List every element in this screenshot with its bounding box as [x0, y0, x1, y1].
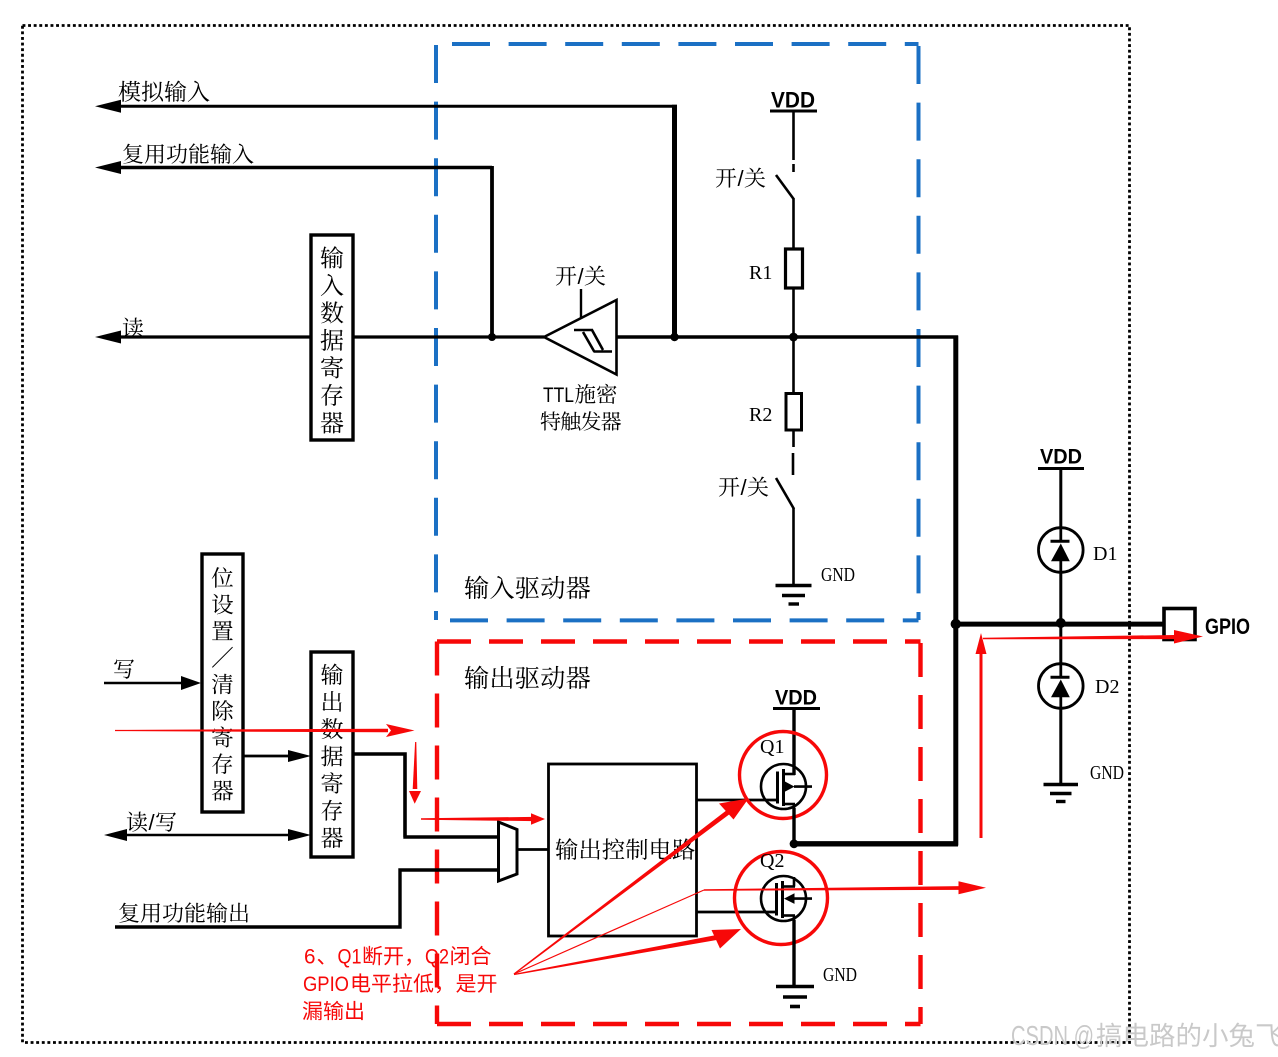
svg-text:R2: R2 — [749, 404, 772, 426]
switch 开/关 (pull-up enable) — [776, 164, 794, 249]
wire: VDD to Q1 drain — [792, 709, 795, 775]
svg-text:D1: D1 — [1093, 543, 1117, 565]
wire: R1 to mid junction — [792, 288, 795, 337]
red arrow: annotation to Q1 gate (diagonal) — [514, 799, 749, 975]
red arrow: down from register output (vertical) — [409, 742, 421, 804]
label: 读/写 (read/write) — [127, 810, 176, 835]
label: 输出控制电路 — [556, 838, 695, 860]
wire: VDD to pull-up switch — [792, 112, 795, 160]
svg-text:D2: D2 — [1095, 676, 1119, 698]
resistor R1 (pull-up) — [786, 249, 803, 288]
svg-text:VDD: VDD — [771, 88, 815, 113]
transistor Q2 (NMOS, black symbol) — [761, 876, 812, 921]
diode D2 (protection to GND) — [1039, 664, 1084, 709]
svg-text:Q2: Q2 — [760, 850, 784, 872]
label: Q2 — [760, 850, 784, 872]
svg-text:Q2: Q2 — [425, 946, 449, 969]
red arrow: to GPIO pad (horizontal) — [983, 630, 1203, 644]
transistor Q1 (PMOS, black symbol) — [761, 764, 812, 809]
label: GND (output stage) — [823, 964, 857, 986]
arrow: 写 (write) into bit set register — [104, 676, 201, 690]
svg-text:Q1: Q1 — [338, 946, 362, 969]
power symbol VDD (pull-up supply) — [770, 88, 817, 113]
label: 输出数据寄存器 (vertical) — [321, 663, 343, 848]
label: 输出驱动器 (output driver) — [465, 666, 591, 690]
wire: D1 to GPIO line — [1059, 572, 1062, 623]
label: R2 — [749, 404, 772, 426]
label: 模拟输入 (analog input) — [119, 80, 210, 101]
schmitt trigger U1 (TTL) — [544, 289, 617, 375]
label: 输入驱动器 (input driver) — [465, 576, 591, 600]
resistor R2 (pull-down) — [786, 337, 802, 430]
label: D1 — [1093, 543, 1117, 565]
wire: alternate function input line with left arrow — [95, 161, 492, 337]
label: 位设置/清除寄存器 (vertical) — [212, 567, 233, 801]
wire: output data register to mux upper input — [353, 752, 498, 837]
red annotation text: 6、Q1断开，Q2闭合 GPIO电平拉低，是开漏输出 — [303, 946, 497, 1021]
label: Q1 — [760, 736, 784, 758]
highlight circle around Q2 (red) — [735, 852, 828, 945]
svg-text:VDD: VDD — [1040, 445, 1082, 469]
svg-text:GND: GND — [821, 564, 855, 586]
svg-text:/: / — [741, 475, 748, 500]
output driver section box (red dashed) — [437, 642, 921, 1025]
wire: gate drive to Q1 — [696, 799, 777, 802]
svg-text:R1: R1 — [749, 262, 772, 284]
wire: 复用功能输出 (alternate function output) to mux lower input — [115, 870, 498, 929]
label: TTL施密特触发器 (TTL schmitt trigger) — [541, 384, 621, 431]
label: 复用功能输入 (alternate function input) — [123, 143, 253, 163]
label: 开/关 (pull-up) — [716, 166, 765, 191]
svg-text:GPIO: GPIO — [1205, 614, 1250, 639]
watermark: CSDN @搞电路的小兔飞 — [1011, 1020, 1278, 1051]
label: 复用功能输出 (alternate function output) — [119, 902, 248, 922]
wire: mux output to output control box — [518, 848, 549, 851]
svg-text:GND: GND — [823, 964, 857, 986]
mux selector (trapezoid) — [499, 822, 518, 881]
wire: analog input line with left arrow — [95, 100, 677, 337]
svg-text:CSDN @: CSDN @ — [1011, 1020, 1094, 1051]
red connector: annotation to output line (thin) — [514, 890, 704, 974]
switch 开/关 (pull-down enable) — [776, 430, 794, 584]
wire: D2 to ground — [1059, 708, 1062, 784]
svg-text:VDD: VDD — [775, 686, 817, 710]
arrow: 读/写 (read/write) double-headed — [104, 829, 311, 841]
arrow: bit set register to output data register — [243, 750, 311, 762]
red arrow: up along GPIO column (vertical) — [976, 633, 987, 838]
wire: read line with left arrow — [95, 331, 544, 344]
wire: GPIO line to D2 — [1059, 623, 1062, 665]
wire: Q1 source to output node — [792, 808, 795, 845]
label: 开/关 (schmitt enable) — [556, 264, 605, 289]
wire: gate drive to Q2 — [696, 911, 776, 914]
highlight circle around Q1 (red) — [740, 732, 827, 819]
register box: 位设置/清除寄存器 (bit set/clear register) — [202, 554, 243, 812]
label: 写 (write) — [114, 659, 134, 678]
label: 读 (read) — [123, 318, 143, 338]
red arrow: annotation to Q2 gate (diagonal) — [514, 929, 741, 975]
wire: Q2 source to ground — [792, 920, 795, 986]
svg-text:GND: GND — [1090, 762, 1124, 784]
label: 输入数据寄存器 (vertical) — [321, 246, 344, 433]
node: junction of analog input column and read line — [670, 333, 678, 341]
wire: GPIO line to pad — [954, 622, 1164, 627]
register box: 输出数据寄存器 (output data register) — [311, 652, 353, 857]
red arrow: into output data register path (horizontal) — [115, 724, 415, 737]
node: GPIO branch on column — [951, 619, 961, 629]
node: pull resistor junction on read line — [789, 333, 798, 342]
GPIO pad (square) — [1164, 609, 1195, 640]
power symbol VDD (protection) — [1038, 445, 1084, 469]
input driver section box (blue dashed) — [436, 44, 919, 620]
svg-text:TTL: TTL — [543, 384, 574, 407]
block: 输出控制电路 (output control circuit) — [549, 764, 697, 936]
svg-text:/: / — [578, 264, 585, 289]
ground (protection) — [1044, 785, 1079, 802]
register box: 输入数据寄存器 (input data register) — [311, 235, 353, 440]
wire: VDD to D1 — [1059, 469, 1062, 529]
label: D2 — [1095, 676, 1119, 698]
svg-text:/: / — [738, 166, 745, 191]
node: junction of alternate input and read line — [488, 333, 496, 341]
red arrow: open-drain output path (long horizontal) — [704, 881, 986, 894]
label: R1 — [749, 262, 772, 284]
wire: schmitt output line to GPIO column — [616, 336, 958, 846]
label: GND (protection) — [1090, 762, 1124, 784]
svg-text:GPIO: GPIO — [303, 973, 349, 996]
label: GPIO — [1205, 614, 1250, 639]
diode D1 (protection to VDD) — [1039, 528, 1084, 573]
svg-text:/: / — [149, 810, 156, 835]
power symbol VDD (output stage) — [773, 686, 820, 710]
svg-text:6: 6 — [304, 946, 316, 969]
node: output junction (Q1/Q2 drain node) — [790, 839, 799, 848]
wire: output node to GPIO column — [794, 841, 958, 846]
node: diode junction on GPIO line — [1056, 618, 1066, 628]
svg-text:Q1: Q1 — [760, 736, 784, 758]
red arrow: into output control circuit (horizontal) — [421, 813, 545, 824]
label: GND (pull-down) — [821, 564, 855, 586]
ground (pull-down) — [776, 586, 812, 605]
label: 开/关 (pull-down) — [719, 475, 768, 500]
ground (output stage) — [776, 987, 814, 1007]
